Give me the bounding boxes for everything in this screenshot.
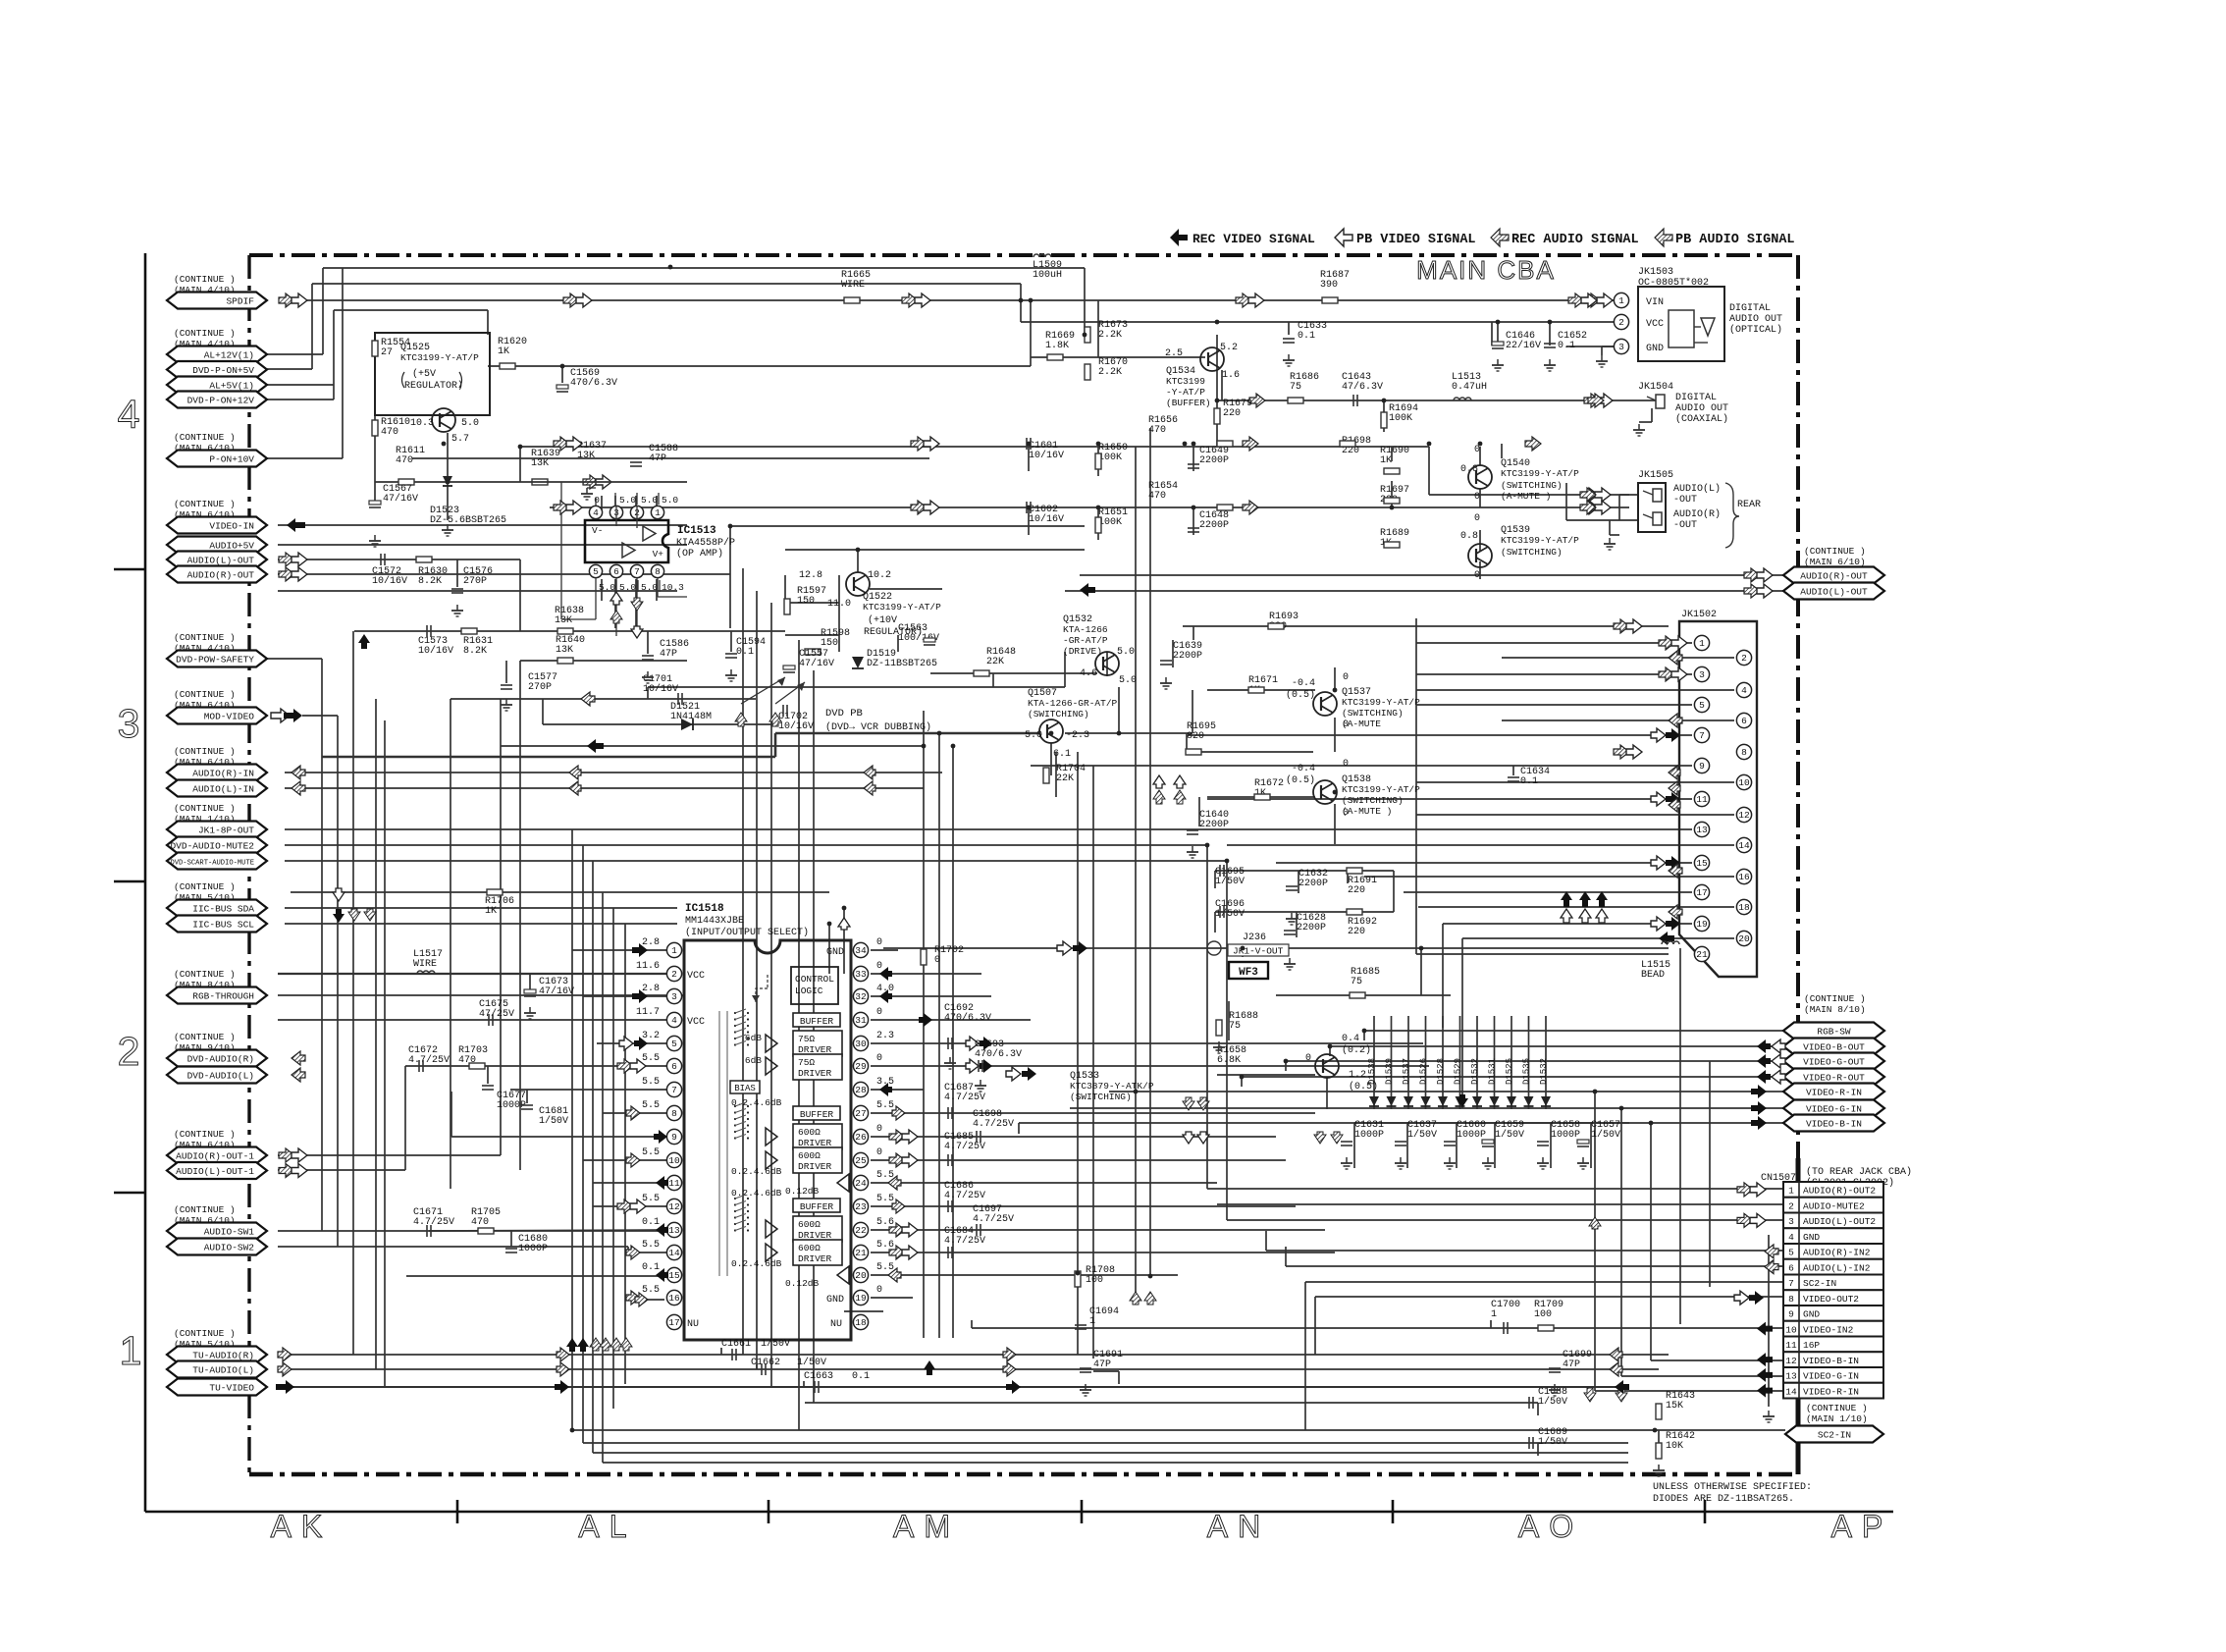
svg-text:1.2: 1.2 [1349,1070,1366,1081]
svg-text:(A-MUTE: (A-MUTE [1342,719,1381,729]
svg-text:D1537: D1537 [1402,1058,1411,1085]
svg-text:1: 1 [1089,1316,1095,1327]
svg-text:470: 470 [1148,425,1166,436]
svg-text:(OPTICAL): (OPTICAL) [1729,324,1782,336]
svg-text:GND: GND [826,947,844,958]
svg-text:8: 8 [1788,1294,1794,1305]
svg-text:(CONTINUE ): (CONTINUE ) [174,689,236,700]
svg-text:(CONTINUE ): (CONTINUE ) [1804,993,1866,1004]
svg-text:C1661: C1661 [721,1339,751,1350]
svg-text:RGB-SW: RGB-SW [1817,1027,1851,1038]
svg-text:(CONTINUE ): (CONTINUE ) [174,969,236,980]
svg-text:4.7/25V: 4.7/25V [408,1054,450,1066]
svg-text:5.5: 5.5 [642,1147,660,1158]
svg-text:(CONTINUE ): (CONTINUE ) [174,803,236,814]
svg-text:AUDIO(R): AUDIO(R) [1673,508,1721,520]
svg-text:AUDIO(R)-OUT2: AUDIO(R)-OUT2 [1803,1186,1876,1197]
svg-text:AK: AK [271,1509,333,1544]
svg-text:13K: 13K [577,451,595,461]
svg-text:REGULATOR): REGULATOR) [404,380,463,392]
svg-text:1000P: 1000P [1551,1130,1580,1141]
svg-text:10: 10 [1785,1324,1797,1335]
svg-text:27: 27 [381,347,393,358]
svg-text:2: 2 [1741,653,1747,664]
svg-text:P-ON+10V: P-ON+10V [209,454,254,465]
svg-text:-Y-AT/P: -Y-AT/P [1166,387,1205,398]
svg-text:(SWITCHING): (SWITCHING) [1501,547,1563,558]
svg-text:10.2: 10.2 [868,570,891,581]
svg-text:47P: 47P [649,453,666,464]
svg-text:DIGITAL: DIGITAL [1675,393,1717,403]
svg-text:0.47uH: 0.47uH [1452,382,1487,393]
svg-text:VIDEO-G-IN: VIDEO-G-IN [1806,1104,1862,1115]
svg-text:10/16V: 10/16V [643,683,678,695]
svg-text:5: 5 [593,566,599,577]
svg-text:GND: GND [1803,1232,1820,1243]
svg-text:1/50V: 1/50V [1538,1436,1567,1448]
svg-text:DRIVER: DRIVER [798,1253,832,1264]
svg-text:DVD-SCART-AUDIO-MUTE: DVD-SCART-AUDIO-MUTE [170,860,254,868]
svg-text:1: 1 [1618,295,1624,306]
svg-text:(CONTINUE ): (CONTINUE ) [174,881,236,892]
svg-text:(MAIN 8/10): (MAIN 8/10) [1804,1004,1866,1015]
svg-text:WIRE: WIRE [413,959,437,970]
svg-text:(DRIVE): (DRIVE) [1063,646,1102,657]
svg-text:(A-MUTE ): (A-MUTE ) [1342,806,1392,817]
svg-text:VIDEO-OUT2: VIDEO-OUT2 [1803,1294,1859,1305]
svg-text:4.7/25V: 4.7/25V [944,1092,985,1103]
svg-text:AUDIO-SW1: AUDIO-SW1 [204,1227,255,1238]
svg-text:D1525: D1525 [1505,1058,1514,1085]
svg-text:75Ω: 75Ω [798,1057,815,1068]
svg-text:5.5: 5.5 [876,1194,894,1204]
svg-text:(0.2): (0.2) [1342,1044,1371,1056]
svg-text:13K: 13K [531,458,549,469]
svg-text:5.0: 5.0 [662,495,678,506]
svg-text:JK1-8P-OUT: JK1-8P-OUT [198,826,254,836]
svg-text:0.2.4.6dB: 0.2.4.6dB [731,1258,782,1269]
svg-text:2200P: 2200P [1199,455,1229,466]
svg-text:VIDEO-G-IN: VIDEO-G-IN [1803,1371,1859,1382]
svg-text:0.1: 0.1 [642,1217,660,1228]
svg-text:31: 31 [855,1015,867,1026]
svg-text:AUDIO OUT: AUDIO OUT [1729,314,1782,325]
svg-text:MOD-VIDEO: MOD-VIDEO [204,712,255,722]
svg-text:PB AUDIO SIGNAL: PB AUDIO SIGNAL [1675,233,1795,247]
svg-text:-OUT: -OUT [1673,495,1697,506]
svg-text:47/16V: 47/16V [539,986,574,997]
svg-text:AUDIO(R)-IN: AUDIO(R)-IN [192,769,254,779]
svg-text:5.0: 5.0 [461,418,479,429]
svg-text:0: 0 [876,1124,882,1135]
svg-text:DZ-5.6BSBT265: DZ-5.6BSBT265 [430,515,506,526]
svg-text:AUDIO(L)-IN2: AUDIO(L)-IN2 [1803,1262,1871,1273]
svg-text:WIRE: WIRE [841,280,865,291]
svg-text:AUDIO(R)-OUT: AUDIO(R)-OUT [187,570,255,581]
svg-text:D1539: D1539 [1385,1058,1395,1085]
svg-text:75: 75 [1290,382,1301,393]
svg-text:25: 25 [855,1155,867,1166]
svg-text:2200P: 2200P [1297,923,1326,933]
svg-text:1/50V: 1/50V [761,1338,790,1350]
svg-text:AM: AM [893,1509,960,1544]
svg-text:5.0: 5.0 [1117,647,1135,658]
svg-text:470/6.3V: 470/6.3V [975,1048,1022,1060]
svg-text:(CONTINUE ): (CONTINUE ) [1806,1403,1868,1413]
svg-text:4.7/25V: 4.7/25V [944,1190,985,1201]
svg-text:18: 18 [1738,902,1750,913]
svg-text:4.7/25V: 4.7/25V [944,1141,985,1152]
svg-text:1: 1 [655,507,661,518]
svg-text:(BUFFER): (BUFFER) [1166,398,1211,408]
svg-text:5.6: 5.6 [876,1217,894,1228]
svg-text:18: 18 [855,1317,867,1328]
svg-text:10/16V: 10/16V [778,720,814,732]
svg-text:D1526: D1526 [1419,1058,1429,1085]
svg-text:(+5V: (+5V [412,368,436,380]
svg-text:PB VIDEO SIGNAL: PB VIDEO SIGNAL [1356,233,1476,247]
svg-text:28: 28 [855,1085,867,1095]
svg-text:1: 1 [1788,1186,1794,1197]
svg-text:VIDEO-IN2: VIDEO-IN2 [1803,1324,1854,1335]
svg-text:7: 7 [1788,1278,1794,1289]
svg-text:0: 0 [876,937,882,948]
svg-text:KTC3199-Y-AT/P: KTC3199-Y-AT/P [400,352,479,363]
svg-text:2: 2 [1788,1200,1794,1211]
svg-text:0.1: 0.1 [852,1371,870,1382]
svg-text:1.6: 1.6 [1222,370,1240,381]
svg-text:DRIVER: DRIVER [798,1068,832,1079]
svg-text:C1663: C1663 [804,1371,833,1382]
svg-text:3: 3 [118,701,140,746]
svg-text:NU: NU [687,1319,699,1330]
svg-text:10/16V: 10/16V [1029,513,1064,525]
svg-text:13K: 13K [556,645,573,656]
svg-text:REC AUDIO SIGNAL: REC AUDIO SIGNAL [1511,233,1639,247]
svg-text:2: 2 [1618,317,1624,328]
svg-text:75Ω: 75Ω [798,1034,815,1044]
svg-text:13K: 13K [555,615,572,626]
svg-text:9: 9 [1788,1309,1794,1320]
svg-text:10: 10 [668,1155,680,1166]
svg-text:21: 21 [1696,949,1708,960]
svg-text:JK1502: JK1502 [1681,610,1717,620]
svg-text:J236: J236 [1243,933,1266,943]
svg-text:0: 0 [1305,1053,1311,1064]
svg-text:5.0: 5.0 [619,582,636,593]
svg-text:1N4148M: 1N4148M [670,712,712,722]
svg-text:1/50V: 1/50V [1538,1396,1567,1408]
svg-text:AUDIO(L)-IN: AUDIO(L)-IN [192,784,254,795]
svg-text:(CONTINUE ): (CONTINUE ) [1804,546,1866,557]
svg-text:12: 12 [668,1201,680,1212]
svg-text:5.0: 5.0 [641,495,658,506]
svg-text:AUDIO(L)-OUT-1: AUDIO(L)-OUT-1 [176,1166,254,1177]
svg-text:AUDIO(R)-OUT: AUDIO(R)-OUT [1800,571,1868,582]
svg-text:6: 6 [1741,716,1747,726]
svg-text:22K: 22K [1056,773,1074,784]
svg-text:RGB-THROUGH: RGB-THROUGH [192,991,254,1002]
svg-text:1/50V: 1/50V [1495,1129,1524,1141]
svg-text:5: 5 [1788,1248,1794,1258]
svg-text:1K: 1K [485,906,497,917]
svg-text:4: 4 [671,1015,677,1026]
svg-text:390: 390 [1320,280,1338,291]
svg-text:4.7/25V: 4.7/25V [413,1216,454,1228]
svg-text:13: 13 [668,1225,680,1236]
svg-text:14: 14 [1738,840,1750,851]
svg-text:BIAS: BIAS [734,1084,756,1093]
svg-text:10K: 10K [1666,1441,1683,1452]
svg-text:5.5: 5.5 [642,1240,660,1251]
svg-text:1000P: 1000P [1354,1130,1384,1141]
svg-text:(CONTINUE ): (CONTINUE ) [174,1032,236,1042]
svg-text:KTC3199-Y-AT/P: KTC3199-Y-AT/P [863,602,941,613]
svg-text:7: 7 [1699,730,1705,741]
svg-text:15K: 15K [1666,1401,1683,1412]
svg-text:IIC-BUS SCL: IIC-BUS SCL [192,920,254,931]
svg-text:D1538: D1538 [1367,1058,1377,1085]
svg-text:VCC: VCC [1646,319,1664,330]
svg-text:26: 26 [855,1132,867,1143]
svg-text:(CONTINUE ): (CONTINUE ) [174,328,236,339]
svg-text:3: 3 [1618,342,1624,352]
svg-text:KTA-1266-GR-AT/P: KTA-1266-GR-AT/P [1028,698,1118,709]
svg-text:0.2.4.6dB: 0.2.4.6dB [731,1097,782,1108]
svg-text:470: 470 [396,455,413,466]
svg-text:6.1: 6.1 [1053,749,1071,760]
svg-text:(CONTINUE ): (CONTINUE ) [174,1129,236,1140]
svg-text:DIGITAL: DIGITAL [1729,303,1771,314]
svg-text:47/25V: 47/25V [479,1008,514,1020]
svg-text:GND: GND [826,1295,844,1306]
svg-text:1000P: 1000P [1457,1130,1486,1141]
svg-text:(CONTINUE ): (CONTINUE ) [174,432,236,443]
svg-text:AO: AO [1518,1509,1583,1544]
svg-text:6: 6 [1788,1262,1794,1273]
svg-text:8: 8 [1741,747,1747,758]
svg-text:5.5: 5.5 [642,1194,660,1204]
svg-text:10/16V: 10/16V [1029,450,1064,461]
svg-text:REAR: REAR [1737,500,1761,510]
svg-text:13: 13 [1696,825,1708,835]
svg-text:D1532: D1532 [1470,1058,1480,1085]
svg-text:VCC: VCC [687,1017,705,1028]
svg-text:470/6.3V: 470/6.3V [944,1012,991,1024]
svg-text:12.8: 12.8 [799,570,822,581]
svg-text:DVD-P-ON+5V: DVD-P-ON+5V [192,365,254,376]
svg-text:MM1443XJBE: MM1443XJBE [685,916,744,927]
svg-text:KIA4558P/P: KIA4558P/P [676,537,735,549]
svg-text:11.7: 11.7 [636,1007,660,1018]
svg-text:1/50V: 1/50V [797,1357,826,1368]
svg-text:47/16V: 47/16V [799,658,834,669]
svg-text:11.0: 11.0 [827,599,851,610]
svg-text:0: 0 [876,1147,882,1158]
svg-text:KTC3199: KTC3199 [1166,376,1205,387]
svg-text:2200P: 2200P [1298,879,1328,889]
svg-text:DIODES ARE DZ-11BSAT265.: DIODES ARE DZ-11BSAT265. [1653,1494,1794,1505]
svg-text:5.5: 5.5 [876,1170,894,1181]
svg-text:0: 0 [594,495,600,506]
svg-text:6: 6 [613,566,619,577]
svg-text:VIDEO-B-IN: VIDEO-B-IN [1803,1356,1859,1366]
svg-text:AUDIO-SW2: AUDIO-SW2 [204,1243,255,1253]
svg-text:AUDIO(R)-OUT-1: AUDIO(R)-OUT-1 [176,1151,254,1162]
svg-text:SPDIF: SPDIF [226,296,254,307]
svg-text:22K: 22K [986,657,1004,667]
svg-text:UNLESS OTHERWISE SPECIFIED:: UNLESS OTHERWISE SPECIFIED: [1653,1482,1812,1493]
svg-text:BUFFER: BUFFER [800,1201,834,1212]
svg-text:(MAIN 1/10): (MAIN 1/10) [1806,1413,1868,1424]
svg-text:7: 7 [671,1085,677,1095]
svg-text:TU-AUDIO(R): TU-AUDIO(R) [192,1351,254,1361]
svg-text:19: 19 [1696,919,1708,930]
svg-text:5.5: 5.5 [642,1053,660,1064]
svg-text:32: 32 [855,991,867,1002]
svg-text:(A-MUTE ): (A-MUTE ) [1501,491,1551,502]
svg-text:DVD PB: DVD PB [825,708,863,719]
svg-text:VIDEO-R-IN: VIDEO-R-IN [1806,1088,1862,1098]
svg-text:820: 820 [1187,731,1204,742]
svg-text:TU-VIDEO: TU-VIDEO [209,1383,254,1394]
svg-text:30: 30 [855,1039,867,1049]
svg-text:5.5: 5.5 [642,1077,660,1088]
svg-text:150: 150 [821,638,838,649]
svg-text:(CONTINUE ): (CONTINUE ) [174,632,236,643]
svg-text:6: 6 [671,1061,677,1072]
svg-text:11: 11 [1785,1340,1797,1351]
svg-text:(+10V: (+10V [868,614,897,626]
svg-text:IIC-BUS SDA: IIC-BUS SDA [192,904,254,915]
svg-text:4: 4 [1741,685,1747,696]
svg-text:1/50V: 1/50V [1407,1129,1437,1141]
svg-text:10.3: 10.3 [662,582,684,593]
svg-text:(0.5): (0.5) [1286,689,1315,701]
svg-text:KTC3199-Y-AT/P: KTC3199-Y-AT/P [1342,784,1420,795]
svg-text:8.2K: 8.2K [463,646,487,657]
svg-text:AL: AL [578,1509,636,1544]
svg-text:470: 470 [471,1217,489,1228]
svg-text:34: 34 [855,945,867,956]
svg-text:0: 0 [876,1285,882,1296]
svg-text:JK1-V-OUT: JK1-V-OUT [1233,946,1284,957]
svg-text:0: 0 [1343,672,1349,683]
svg-text:JK1504: JK1504 [1638,382,1673,393]
svg-text:10: 10 [1738,777,1750,788]
svg-text:D1531: D1531 [1488,1058,1498,1085]
svg-text:29: 29 [855,1061,867,1072]
svg-text:(CONTINUE ): (CONTINUE ) [174,746,236,757]
svg-text:VIDEO-G-OUT: VIDEO-G-OUT [1803,1057,1865,1068]
svg-text:0.1: 0.1 [1558,341,1575,351]
svg-text:DVD-AUDIO(L): DVD-AUDIO(L) [187,1071,254,1082]
svg-text:1/50V: 1/50V [539,1115,568,1127]
svg-text:2.2K: 2.2K [1098,330,1122,341]
svg-text:47P: 47P [1563,1359,1580,1370]
svg-text:10/16V: 10/16V [372,575,407,587]
svg-text:(CONTINUE ): (CONTINUE ) [174,274,236,285]
svg-text:V+: V+ [653,549,664,560]
svg-text:24: 24 [855,1178,867,1189]
svg-text:470: 470 [1148,491,1166,502]
svg-text:14: 14 [1785,1386,1797,1397]
svg-text:2.5: 2.5 [1165,348,1183,359]
svg-text:D1528: D1528 [1436,1058,1446,1085]
svg-text:0.12dB: 0.12dB [785,1278,820,1289]
svg-text:0.4: 0.4 [1342,1034,1359,1044]
svg-text:DVD-AUDIO(R): DVD-AUDIO(R) [187,1054,254,1065]
svg-text:20: 20 [855,1270,867,1281]
svg-text:0.1: 0.1 [736,647,754,658]
svg-text:BUFFER: BUFFER [800,1016,834,1027]
svg-text:16: 16 [1738,872,1750,882]
svg-text:5.6: 5.6 [876,1240,894,1251]
svg-text:1: 1 [671,945,677,956]
svg-text:5.5: 5.5 [642,1100,660,1111]
svg-text:8: 8 [671,1108,677,1119]
svg-text:47P: 47P [1093,1359,1111,1370]
svg-text:VIDEO-R-OUT: VIDEO-R-OUT [1803,1073,1865,1084]
svg-text:WF3: WF3 [1239,967,1258,979]
svg-text:75: 75 [1229,1021,1241,1032]
svg-text:DVD-AUDIO-MUTE2: DVD-AUDIO-MUTE2 [170,841,254,852]
svg-text:V-: V- [592,525,603,536]
svg-text:(OP AMP): (OP AMP) [676,548,723,560]
svg-text:12: 12 [1785,1356,1797,1366]
svg-text:AP: AP [1831,1509,1893,1544]
svg-text:3: 3 [1699,669,1705,680]
svg-text:TU-AUDIO(L): TU-AUDIO(L) [192,1365,254,1376]
svg-text:VIDEO-R-IN: VIDEO-R-IN [1803,1386,1859,1397]
svg-text:11: 11 [668,1178,680,1189]
svg-text:REC VIDEO SIGNAL: REC VIDEO SIGNAL [1192,232,1315,246]
svg-text:KTC3879-Y-ATK/P: KTC3879-Y-ATK/P [1070,1081,1154,1092]
svg-text:15: 15 [1696,858,1708,869]
svg-text:8: 8 [655,566,661,577]
svg-text:LOGIC: LOGIC [795,986,823,996]
svg-text:DZ-11BSBT265: DZ-11BSBT265 [867,659,937,669]
svg-text:5.5: 5.5 [876,1262,894,1273]
svg-text:(TO REAR JACK CBA): (TO REAR JACK CBA) [1806,1166,1912,1178]
svg-text:33: 33 [855,969,867,980]
svg-text:270P: 270P [528,682,552,693]
svg-text:0.1: 0.1 [1520,776,1538,787]
svg-text:17: 17 [1696,887,1707,898]
svg-text:VCC: VCC [687,971,705,982]
svg-text:9: 9 [1699,761,1705,772]
svg-text:11: 11 [1696,794,1708,805]
svg-text:5.5: 5.5 [642,1285,660,1296]
svg-text:16P: 16P [1803,1340,1820,1351]
svg-text:5.0: 5.0 [599,582,615,593]
svg-text:23: 23 [855,1201,867,1212]
svg-text:100: 100 [1534,1309,1552,1320]
svg-text:17: 17 [668,1317,679,1328]
svg-text:NU: NU [830,1319,842,1330]
svg-text:VIDEO-B-OUT: VIDEO-B-OUT [1803,1042,1865,1053]
svg-text:7: 7 [634,566,640,577]
svg-text:(SWITCHING): (SWITCHING) [1501,480,1563,491]
svg-text:19: 19 [855,1293,867,1304]
svg-text:BEAD: BEAD [1641,970,1665,981]
svg-text:AN: AN [1207,1509,1270,1544]
svg-text:AUDIO(R)-IN2: AUDIO(R)-IN2 [1803,1248,1871,1258]
svg-text:47/6.3V: 47/6.3V [1342,381,1383,393]
svg-text:0: 0 [876,961,882,972]
svg-text:DVD-P-ON+12V: DVD-P-ON+12V [187,396,255,406]
svg-text:(SWITCHING): (SWITCHING) [1070,1092,1132,1102]
